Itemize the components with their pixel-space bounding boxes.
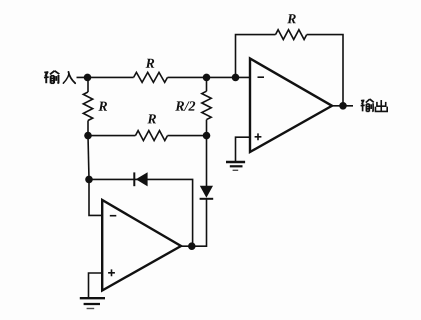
- ground G1 (U1 + input): [226, 162, 245, 170]
- diode D1 horizontal pointing left: [134, 172, 147, 186]
- wire output: [332, 105, 353, 107]
- label R/2: [175, 101, 195, 110]
- label R feedback resistor: [287, 14, 296, 23]
- U1 minus sign: [258, 76, 265, 78]
- U2 minus sign: [110, 215, 117, 217]
- label output (shu-chu): [361, 99, 388, 112]
- node A top mid junction: [203, 74, 211, 82]
- wire U2 output to diode branch corner: [181, 199, 207, 246]
- wire feedback loop left vertical: [236, 35, 276, 78]
- ground G2 (U2 + input): [80, 298, 105, 308]
- wire diode feedback row from node D: [89, 179, 193, 246]
- resistor R1 top horizontal R: [134, 72, 168, 82]
- wire R/2 branch vertical: [206, 77, 208, 135]
- U2 plus sign: [108, 269, 115, 276]
- resistor R4 vertical R/2: [202, 91, 211, 119]
- node C right mid junction: [203, 132, 211, 140]
- wire U1 non-inverting input to ground: [236, 137, 251, 161]
- label R top resistor: [146, 59, 155, 68]
- wire diode D2 branch top: [206, 136, 208, 186]
- node N1 input junction: [84, 74, 92, 82]
- label R left resistor: [98, 102, 107, 111]
- label R mid resistor: [147, 114, 156, 123]
- wire left branch vertical: [87, 77, 89, 135]
- node E U2 output junction: [188, 242, 196, 250]
- op-amp U1: [250, 59, 332, 153]
- wire feedback loop right vertical to output: [307, 35, 343, 106]
- node D diode row junction: [85, 176, 93, 184]
- diode D2 vertical pointing down: [200, 186, 214, 199]
- wire U2 inverting input: [89, 179, 102, 215]
- node FB feedback junction: [232, 74, 240, 82]
- resistor R2 left vertical R: [83, 92, 92, 121]
- wire input row to U1 inverting input: [77, 76, 251, 78]
- wire node B down to node D: [88, 136, 89, 180]
- op-amp U2: [102, 200, 181, 291]
- label input (shu-ru): [44, 71, 75, 84]
- resistor R3 mid horizontal R: [135, 131, 167, 141]
- wire mid row node B to node C: [88, 135, 207, 137]
- U1 plus sign: [255, 133, 262, 140]
- resistor R5 feedback R: [276, 30, 307, 40]
- node OUT output junction: [339, 102, 347, 110]
- node B left mid junction: [84, 132, 92, 140]
- wire U2 non-inverting input to ground: [89, 273, 103, 297]
